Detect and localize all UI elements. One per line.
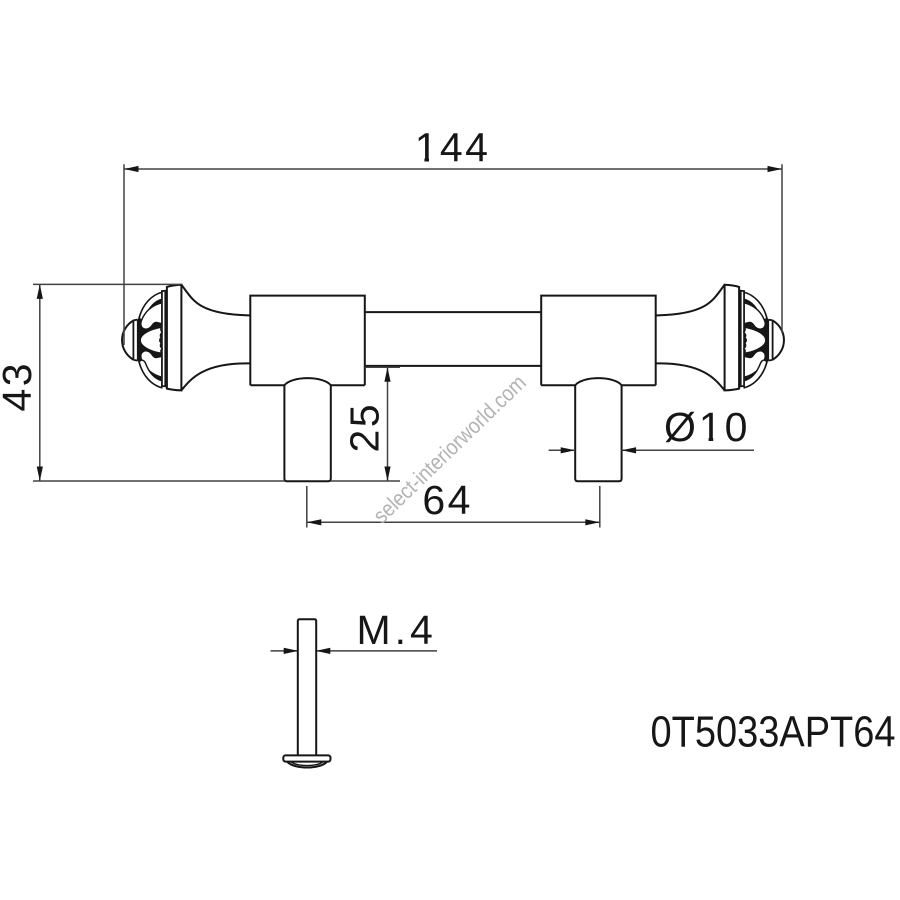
finial right (mirrored) <box>656 285 784 391</box>
svg-text:144: 144 <box>415 124 491 170</box>
dim 144 line <box>124 168 782 170</box>
screw shaft <box>298 619 316 755</box>
leg right arch <box>575 378 621 385</box>
dim 144 arrows <box>124 166 139 172</box>
dim 43 ext lines <box>33 284 284 481</box>
svg-text:25: 25 <box>342 402 388 452</box>
dim 25 ext lines <box>331 367 400 481</box>
leg left arch <box>284 378 330 385</box>
svg-text:M.4: M.4 <box>357 607 437 653</box>
leg right <box>575 385 621 481</box>
dim 25 arrows <box>384 367 390 382</box>
post left <box>250 296 364 386</box>
dim dia10 lines <box>549 449 754 451</box>
dim 64 ext lines <box>307 486 600 528</box>
dim dia10 arrows <box>561 447 576 453</box>
svg-text:Ø10: Ø10 <box>664 404 751 450</box>
leg left <box>284 385 330 481</box>
dim 43 line <box>39 284 41 481</box>
dim 64 arrows <box>307 519 322 525</box>
dim M4 arrows <box>284 648 299 654</box>
dim 64 line <box>307 521 600 523</box>
dim 144 ext lines <box>124 164 782 345</box>
svg-text:43: 43 <box>0 361 40 411</box>
screw head dome <box>288 762 327 767</box>
bar between posts <box>365 312 541 366</box>
dim M4 lines <box>271 650 438 652</box>
finial left <box>122 285 250 391</box>
serif patches on digit 1 <box>416 157 425 162</box>
dim 43 arrows <box>37 284 43 299</box>
post right <box>541 296 656 386</box>
dim 25 line <box>387 367 389 481</box>
svg-text:0T5033APT64: 0T5033APT64 <box>651 707 896 756</box>
screw washer <box>283 755 330 761</box>
screw head inner arc <box>292 762 323 765</box>
